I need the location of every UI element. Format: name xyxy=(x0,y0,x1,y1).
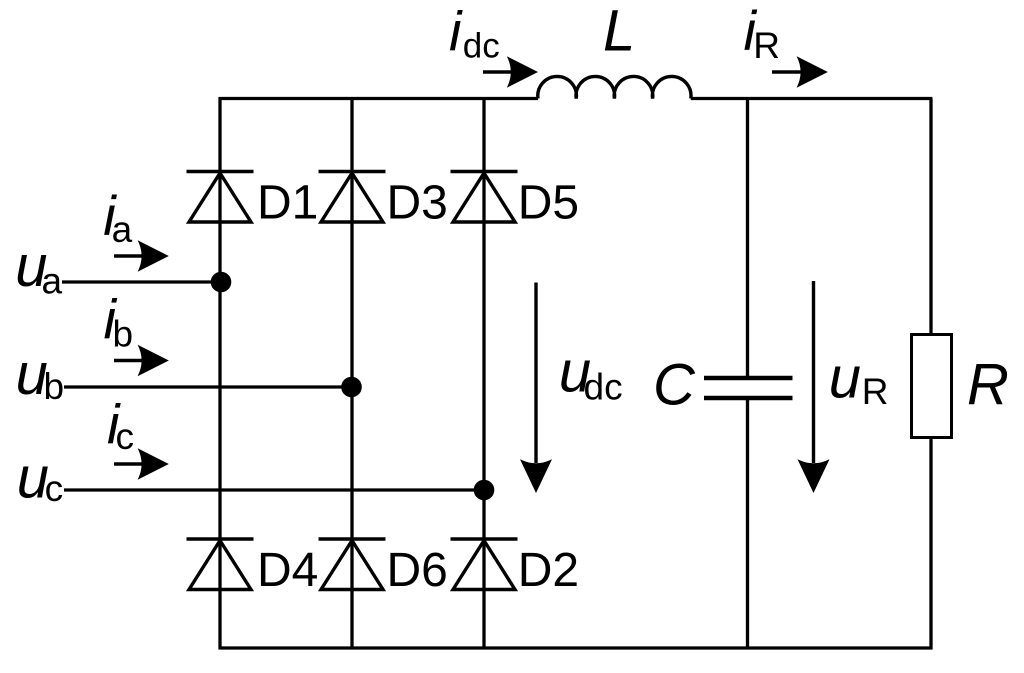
svg-text:D4: D4 xyxy=(257,544,318,597)
capacitor C plates xyxy=(704,378,793,398)
diode D3 xyxy=(319,172,386,223)
svg-text:L: L xyxy=(603,0,635,63)
diode D1 xyxy=(187,172,254,223)
svg-text:D1: D1 xyxy=(257,177,318,230)
arrow i_R xyxy=(772,56,828,87)
wire capacitor branch upper xyxy=(746,97,749,376)
wire bridge leg c xyxy=(482,97,485,649)
diode D5 xyxy=(451,172,518,223)
svg-text:C: C xyxy=(653,352,696,417)
node B (phase b junction) xyxy=(341,377,362,398)
wire phase c input xyxy=(64,488,484,491)
svg-text:D3: D3 xyxy=(387,177,448,230)
svg-text:a: a xyxy=(112,209,133,250)
diode D2 xyxy=(451,539,518,590)
svg-text:b: b xyxy=(44,366,65,407)
wire bridge leg b xyxy=(350,97,353,649)
svg-text:R: R xyxy=(862,371,889,412)
resistor R body xyxy=(912,335,952,438)
arrow i_c xyxy=(114,448,169,479)
svg-text:dc: dc xyxy=(584,366,623,407)
wire capacitor branch lower xyxy=(746,400,749,649)
wire phase a input xyxy=(62,280,220,283)
arrow i_dc xyxy=(483,56,538,87)
node C (phase c junction) xyxy=(474,480,495,501)
wire top bus right segment xyxy=(691,97,933,100)
svg-text:u: u xyxy=(829,346,861,411)
svg-text:R: R xyxy=(753,25,780,66)
svg-text:D6: D6 xyxy=(387,544,448,597)
svg-text:b: b xyxy=(113,314,134,355)
svg-text:D2: D2 xyxy=(518,544,579,597)
wire phase b input xyxy=(64,385,352,388)
svg-text:a: a xyxy=(42,261,63,302)
svg-text:D5: D5 xyxy=(518,177,579,230)
wire bridge leg a xyxy=(218,97,221,649)
diode D6 xyxy=(319,539,386,590)
wire bottom bus xyxy=(219,646,933,649)
svg-text:i: i xyxy=(449,0,463,62)
arrow u_dc xyxy=(520,283,552,494)
arrow i_b xyxy=(114,345,169,376)
arrow i_a xyxy=(114,240,169,271)
svg-text:c: c xyxy=(116,416,135,457)
svg-text:dc: dc xyxy=(463,27,500,66)
diode D4 xyxy=(187,539,254,590)
svg-text:R: R xyxy=(967,352,1009,417)
node A (phase a junction) xyxy=(211,272,232,293)
wire top bus left segment xyxy=(219,97,538,100)
arrow u_R xyxy=(798,281,830,493)
wire right edge lower (from resistor) xyxy=(929,436,932,649)
inductor L xyxy=(538,76,691,98)
wire right edge upper (to resistor) xyxy=(929,99,932,337)
svg-text:c: c xyxy=(45,468,64,509)
